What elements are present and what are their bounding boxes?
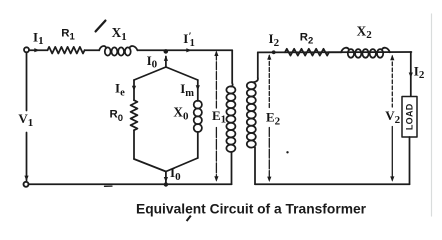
winding: primary (transformer) [226,83,235,152]
arrow: I'1 (right) [186,48,192,52]
svg-text:I2: I2 [414,63,425,81]
arrow: I1 (right) [34,48,40,52]
svg-text:I0: I0 [147,53,158,71]
svg-text:Equivalent Circuit of a Transf: Equivalent Circuit of a Transformer [136,201,367,216]
measurement line V2 (dashed, lower) [391,127,393,181]
wire: primary bottom rail [29,183,232,185]
svg-text:I1: I1 [33,29,44,47]
wire: primary winding bottom to rail [231,152,233,184]
wire: split diagonal to left branch [134,67,166,80]
stray dash on bottom rail [105,185,113,187]
svg-text:E1: E1 [212,108,226,126]
wire: secondary bottom rail [255,183,410,185]
wire: secondary top-left corner down to winding [257,52,259,78]
junction: E2 dot on secondary rail [272,50,276,54]
wire: below R0 [133,130,135,159]
wire: below X0 [197,132,199,158]
svg-text:X0: X0 [173,104,189,122]
scan artifact: faint right edge line [431,14,433,216]
measurement line V2 (dashed, upper) [391,56,393,107]
svg-text:V2: V2 [385,108,400,126]
stray apostrophe below caption [187,216,191,221]
arrow: I0 (up) [164,56,168,61]
arrow: V1 direction (down) [24,176,28,181]
svg-text:R0: R0 [110,109,124,124]
svg-text:X1: X1 [112,25,127,43]
wire: between R2 and X2 [329,51,341,53]
node: primary top-left terminal [24,47,29,52]
measurement line E1 (dashed, upper) [215,52,217,108]
svg-text:LOAD: LOAD [405,103,415,130]
resistor R2 [285,49,329,56]
wire: split diagonal to right branch [166,67,198,80]
wire: left branch diagonal to bottom node [134,159,166,172]
wire: top rail from terminal to R1 [29,49,47,51]
svg-text:R1: R1 [61,27,75,42]
inductor X2 [341,48,390,58]
wire: left vertical (V1 side, lower segment) [26,133,28,181]
wire: I0 stub below junction [165,57,167,68]
component: LOAD box [402,97,417,138]
wire: left branch down to R0 [133,80,135,100]
svg-text:E2: E2 [266,110,281,128]
resistor R0 [131,100,138,130]
wire: right vertical from rail corner to LOAD [410,52,412,97]
inductor X0 [194,101,202,132]
svg-text:Ie: Ie [115,81,125,99]
stray speck [286,151,288,153]
arrow: V2 bottom (down) [390,176,394,181]
arrow: E1 top (up) [214,51,218,56]
winding: secondary (transformer) [247,78,258,148]
svg-text:I2: I2 [269,31,280,49]
arrow: V2 top (up) [390,55,394,60]
arrow: E2 top (up) [267,54,271,59]
wire: right branch diagonal to bottom node [166,158,198,172]
wire: LOAD bottom to rail [409,137,411,184]
svg-text:I′1: I′1 [183,31,195,49]
wire: secondary winding bottom to rail [254,148,256,185]
arrow: Ie (down) [132,86,136,91]
svg-text:X2: X2 [357,23,373,41]
svg-text:V1: V1 [18,111,33,129]
wire: I0 bottom stub [165,172,167,184]
inductor X1 [99,46,137,56]
wire: primary right corner down to winding [231,50,233,83]
wire: X1 to primary right corner [137,49,232,51]
junction: bottom rail dot [164,182,168,186]
node: primary bottom-left terminal [24,182,29,187]
arrow: E2 bottom (down) [267,177,271,182]
arrow: I2 right side (down) [409,73,413,78]
measurement line E1 (dashed, lower) [215,128,217,181]
measurement line E2 (dashed, upper) [268,56,270,110]
junction: shunt-branch top dot [164,49,169,54]
wire: secondary top rail [258,51,412,53]
stray slash mark [96,21,106,32]
svg-text:R2: R2 [300,31,314,46]
measurement line E2 (dashed, lower) [268,128,270,181]
svg-text:Im: Im [180,81,194,99]
arrow: Im (down) [196,85,200,90]
resistor R1 [48,47,85,54]
wire: between R1 and X1 [85,49,100,51]
wire: left vertical (V1 side, upper segment) [26,52,28,110]
wire: right branch down to X0 [197,80,199,101]
arrow: E1 bottom (down) [214,176,218,181]
arrow: I0 bottom (down) [164,177,168,182]
